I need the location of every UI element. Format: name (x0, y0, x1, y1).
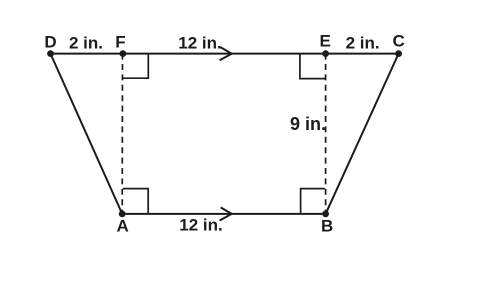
right angle at A (123, 189, 148, 214)
svg-text:E: E (320, 31, 331, 50)
svg-text:12 in.: 12 in. (179, 216, 222, 235)
wire bottom side AB (122, 213, 325, 215)
svg-text:12 in.: 12 in. (178, 33, 221, 52)
right angle at F (123, 54, 148, 79)
arrow mark on bottom side (220, 207, 232, 220)
right angle at B (301, 189, 325, 214)
node D (47, 50, 54, 57)
node C (395, 50, 402, 57)
node A (119, 211, 126, 218)
arrow mark on top side (220, 47, 232, 60)
wire top side DC (51, 53, 399, 55)
node B (322, 211, 329, 218)
right angle at E (300, 54, 325, 79)
svg-text:C: C (392, 31, 404, 50)
wire dashed altitude EB (325, 54, 327, 214)
svg-text:B: B (321, 217, 333, 236)
svg-text:A: A (116, 217, 128, 236)
svg-text:F: F (115, 32, 125, 51)
svg-text:2 in.: 2 in. (69, 33, 103, 52)
svg-text:D: D (44, 32, 56, 51)
wire left side DA (51, 54, 123, 214)
node F (120, 50, 127, 57)
svg-text:2 in.: 2 in. (346, 33, 380, 52)
wire right side CB (326, 54, 399, 214)
svg-text:9 in.: 9 in. (290, 114, 326, 134)
wire dashed altitude FA (121, 54, 123, 214)
node E (322, 50, 329, 57)
